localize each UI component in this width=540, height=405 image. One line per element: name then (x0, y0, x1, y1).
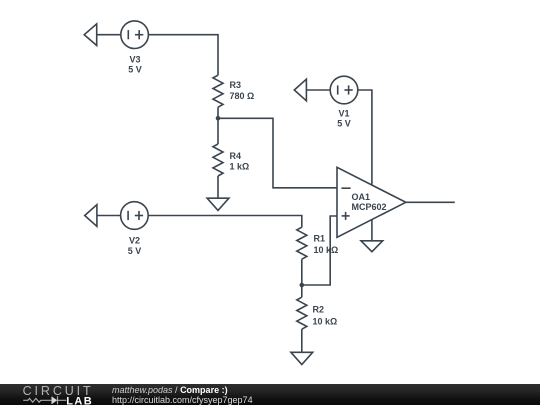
junction node B (300, 283, 305, 288)
wire V2 to R1 (148, 216, 302, 228)
footer bar (0, 384, 540, 405)
voltage source V2 (85, 202, 149, 230)
wire V3 to R3 (148, 35, 218, 75)
resistor R2 (297, 297, 307, 329)
footer credit text (112, 384, 253, 405)
voltage source V1 (294, 76, 358, 104)
junction node A (216, 116, 221, 121)
resistor R3 (213, 75, 223, 107)
wire op-amp output (406, 201, 455, 203)
svg-text:V3: V3 (129, 54, 140, 64)
svg-text:R2: R2 (313, 304, 325, 314)
ground (R4) (207, 198, 229, 210)
wire node A to op-amp inverting input (218, 118, 337, 188)
resistor R1 (297, 227, 307, 259)
svg-text:V1: V1 (338, 109, 349, 119)
svg-text:MCP602: MCP602 (352, 202, 387, 212)
resistor R4 (213, 144, 223, 176)
op-amp OA1 (337, 167, 406, 237)
svg-text:5 V: 5 V (337, 119, 351, 129)
svg-text:V2: V2 (129, 235, 140, 245)
wire R1 to R2 (301, 259, 303, 297)
svg-text:1 kΩ: 1 kΩ (230, 161, 250, 171)
svg-text:R3: R3 (230, 80, 242, 90)
svg-text:LAB: LAB (66, 395, 93, 405)
CircuitLab logo (0, 384, 100, 405)
svg-text:R1: R1 (314, 233, 326, 243)
svg-text:10 kΩ: 10 kΩ (314, 245, 339, 255)
wire R4 to ground (217, 176, 219, 198)
svg-text:780 Ω: 780 Ω (230, 91, 255, 101)
svg-text:5 V: 5 V (128, 246, 142, 256)
voltage source V3 (84, 21, 148, 49)
wire R2 to ground (301, 329, 303, 352)
svg-text:10 kΩ: 10 kΩ (313, 316, 338, 326)
wire op-amp negative supply pin to ground (371, 219, 373, 240)
ground (R2) (291, 352, 313, 364)
ground (op-amp) (361, 241, 383, 252)
wire V1 to op-amp power pin (358, 90, 372, 185)
svg-text:OA1: OA1 (352, 192, 371, 202)
wire node B to op-amp non-inverting input (302, 216, 337, 285)
wire R3 to R4 (217, 107, 219, 144)
svg-text:R4: R4 (230, 151, 242, 161)
svg-text:5 V: 5 V (128, 64, 142, 74)
